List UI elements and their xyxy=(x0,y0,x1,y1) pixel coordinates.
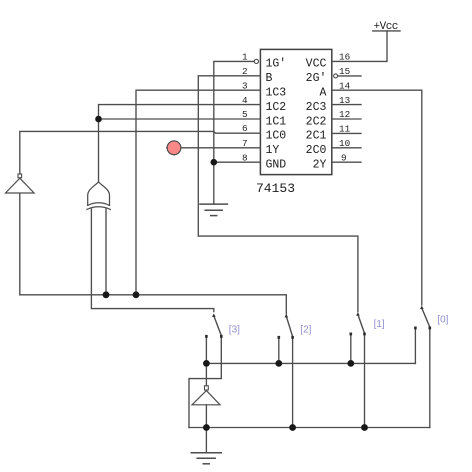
wire XOR input right to bus xyxy=(105,209,107,295)
svg-text:[1]: [1] xyxy=(374,319,385,330)
wire S0 left contact to bus1 xyxy=(414,330,416,364)
node S2 right on bus0 xyxy=(289,424,296,431)
node pin4/pin5 junction xyxy=(95,116,102,123)
svg-text:11: 11 xyxy=(339,124,351,135)
wire pin2 B to switch S1 xyxy=(198,76,358,312)
wire pin7 1Y to probe xyxy=(180,147,260,149)
node NOT out on bus0 xyxy=(203,424,210,431)
xor gate U3 body xyxy=(88,182,110,206)
svg-text:6: 6 xyxy=(242,123,248,134)
wire XOR input left to switch S3 xyxy=(91,209,213,312)
node pin3 on bus xyxy=(133,291,140,298)
inverter U2 triangle xyxy=(6,178,35,193)
svg-text:1: 1 xyxy=(242,52,248,63)
switch S3 arrow xyxy=(212,314,216,317)
svg-text:1C2: 1C2 xyxy=(266,101,287,114)
svg-text:GND: GND xyxy=(266,159,287,172)
svg-text:A: A xyxy=(319,87,326,100)
wire S1 left contact to bus1 xyxy=(350,336,352,364)
xor gate U3 input edge xyxy=(88,203,110,206)
pin numbers left xyxy=(242,52,248,164)
svg-text:B: B xyxy=(266,72,273,85)
wire pin14 A to switch S0 xyxy=(332,90,422,305)
switch S1 lever xyxy=(358,315,365,333)
wire S3 left contact to bus1 xyxy=(205,338,207,363)
node S1 left on bus1 xyxy=(347,360,354,367)
svg-text:13: 13 xyxy=(339,95,350,106)
wire S2 left contact to bus1 xyxy=(278,339,280,363)
Vcc underline xyxy=(373,30,400,32)
pin 15 bubble xyxy=(334,74,338,78)
inverter U4 triangle xyxy=(192,391,220,405)
wire bus1 logic-one rail xyxy=(206,362,415,364)
wire S2 right contact to bus0 xyxy=(292,339,294,428)
svg-text:[0]: [0] xyxy=(437,314,448,325)
node xor input on bus xyxy=(103,291,110,298)
svg-text:15: 15 xyxy=(339,66,350,77)
wire pin3 1C3 to bus xyxy=(136,90,260,295)
svg-text:[2]: [2] xyxy=(300,325,311,336)
switch S3 lever xyxy=(214,317,221,336)
svg-text:1G′: 1G′ xyxy=(266,58,287,71)
svg-text:2Y: 2Y xyxy=(313,159,327,172)
svg-text:8: 8 xyxy=(242,152,248,163)
wire pin1 to ground node xyxy=(214,61,255,162)
ground bottom xyxy=(191,453,221,464)
svg-text:16: 16 xyxy=(339,52,350,63)
svg-text:2G′: 2G′ xyxy=(306,72,327,85)
probe P1 xyxy=(166,140,174,155)
svg-text:5: 5 xyxy=(242,109,248,120)
wire pin16 VCC xyxy=(332,31,387,62)
wire pin8 GND xyxy=(214,161,260,163)
svg-text:2C2: 2C2 xyxy=(306,115,327,128)
node S3 left on bus1 xyxy=(203,360,210,367)
wire S1 right contact to bus0 xyxy=(364,336,366,428)
wire S0 right contact to bus0 xyxy=(429,329,431,428)
chip pin labels left xyxy=(266,58,287,172)
wire pin12 stub xyxy=(332,118,361,120)
wire pin6 1C0 to inverter xyxy=(20,131,260,174)
wire S3 right contact to bus0 xyxy=(189,338,221,428)
wire XOR output xyxy=(98,119,100,182)
svg-text:3: 3 xyxy=(242,80,248,91)
svg-text:9: 9 xyxy=(341,152,347,163)
wire bus0 ground rail xyxy=(189,427,430,429)
svg-text:1Y: 1Y xyxy=(266,144,280,157)
wire pin15 stub xyxy=(338,75,361,77)
chip pin labels right xyxy=(306,58,327,172)
wire bus bit2 xyxy=(20,295,287,314)
wire pin9 stub xyxy=(332,161,361,163)
svg-text:1C0: 1C0 xyxy=(266,130,287,143)
wire NOT input xyxy=(205,363,207,385)
switch contact nubs xyxy=(205,327,431,339)
switch S2 lever xyxy=(287,317,293,337)
pin 1 bubble xyxy=(254,59,258,63)
svg-text:14: 14 xyxy=(339,80,351,91)
wire pin5 1C1 xyxy=(99,118,261,120)
svg-text:74153: 74153 xyxy=(256,181,295,196)
svg-text:10: 10 xyxy=(339,138,350,149)
svg-text:1C3: 1C3 xyxy=(266,87,287,100)
svg-text:1C1: 1C1 xyxy=(266,115,287,128)
svg-text:12: 12 xyxy=(339,109,350,120)
svg-text:VCC: VCC xyxy=(306,58,327,71)
wire ground tap U1 xyxy=(213,162,215,204)
wire inverter output to bus xyxy=(19,193,21,295)
svg-text:2C1: 2C1 xyxy=(306,130,327,143)
svg-text:7: 7 xyxy=(242,138,248,149)
wire pin13 stub xyxy=(332,104,361,106)
wire pin10 stub xyxy=(332,147,361,149)
inverter U2 bubble xyxy=(18,174,22,178)
node S2 left on bus1 xyxy=(275,360,282,367)
xor gate U3 second arc xyxy=(87,207,110,210)
wire NOT output xyxy=(205,405,207,428)
switch S0 arrow xyxy=(420,306,424,309)
switch S0 lever xyxy=(422,309,430,328)
switch S2 arrow xyxy=(285,314,289,317)
svg-text:+Vcc: +Vcc xyxy=(374,21,398,33)
wire ground tap bottom xyxy=(205,428,207,453)
switch S1 arrow xyxy=(356,312,360,315)
ground xyxy=(200,204,227,216)
inverter U4 bubble xyxy=(205,386,209,390)
pin numbers right xyxy=(339,52,351,164)
wire pin11 stub xyxy=(332,132,361,134)
svg-text:2C3: 2C3 xyxy=(306,101,327,114)
wire pin4 1C2 xyxy=(99,105,261,119)
node S1 right on bus0 xyxy=(361,424,368,431)
svg-text:2C0: 2C0 xyxy=(306,144,327,157)
op-amp U1 74153 body xyxy=(260,49,331,174)
svg-text:[3]: [3] xyxy=(229,325,240,336)
svg-text:4: 4 xyxy=(242,95,248,106)
node pin8 ground junction xyxy=(211,159,218,166)
svg-text:2: 2 xyxy=(242,66,248,77)
